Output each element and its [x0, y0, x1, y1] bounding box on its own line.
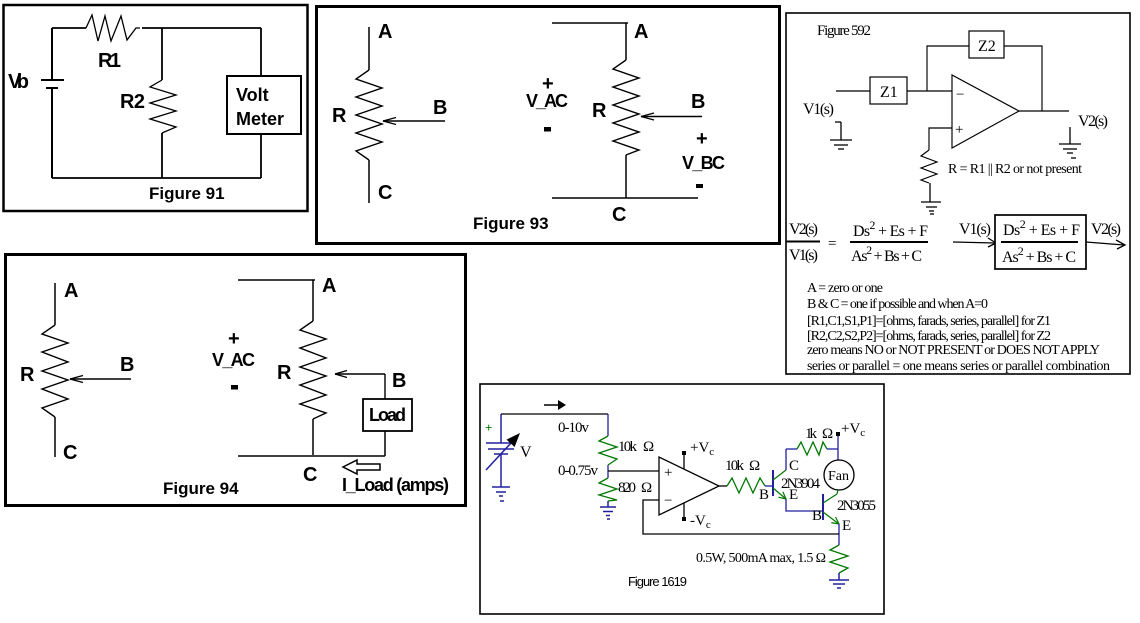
- wire R2 branch top: [161, 28, 163, 80]
- potentiometer R left 94: [42, 325, 68, 417]
- wire bottom right pot 94: [238, 455, 385, 457]
- ground V1: [830, 122, 852, 149]
- resistor 10k vertical: [599, 436, 617, 465]
- resistor R1: [86, 15, 140, 41]
- label 1k ohm: [805, 426, 833, 442]
- svg-text:B: B: [759, 487, 769, 503]
- svg-text:−: −: [664, 493, 672, 509]
- svg-text:B & C = one if possible and w: B & C = one if possible and when A=0: [807, 297, 988, 312]
- svg-text:V1(s): V1(s): [789, 247, 818, 264]
- op-amp A1: [659, 457, 719, 515]
- svg-text:Ds2 + Es + F: Ds2 + Es + F: [853, 218, 928, 240]
- svg-text:10k: 10k: [618, 439, 638, 455]
- svg-text:A: A: [64, 280, 78, 302]
- svg-text:Figure 592: Figure 592: [817, 23, 871, 39]
- battery Vb: [41, 28, 64, 178]
- svg-text:Ω: Ω: [641, 480, 652, 496]
- svg-text:R: R: [20, 364, 35, 386]
- wire 1k to Vc node: [827, 448, 838, 450]
- transistor Q1 2N3904: [773, 470, 786, 499]
- svg-text:+: +: [696, 128, 708, 150]
- svg-text:[R2,C2,S2,P2]=[ohms, farads, s: [R2,C2,S2,P2]=[ohms, farads, series, par…: [807, 329, 1051, 344]
- fan M1: [824, 460, 854, 490]
- svg-text:Ω: Ω: [822, 426, 833, 442]
- wire A down right pot 94: [312, 280, 314, 321]
- svg-text:[R1,C1,S1,P1]=[ohms, farads, s: [R1,C1,S1,P1]=[ohms, farads, series, par…: [807, 314, 1051, 329]
- wire A down right pot: [625, 23, 627, 60]
- svg-text:+Vc: +Vc: [690, 440, 714, 458]
- wire bottom: [52, 177, 261, 179]
- svg-text:B: B: [691, 91, 705, 113]
- wire junction: [607, 465, 609, 478]
- battery V variable source: [486, 414, 514, 470]
- svg-text:V1(s): V1(s): [959, 221, 991, 238]
- current arrow head: [558, 400, 566, 410]
- svg-text:R: R: [277, 362, 292, 384]
- svg-text:Fan: Fan: [828, 469, 849, 484]
- svg-text:B: B: [812, 508, 822, 524]
- wire A top right pot: [552, 22, 628, 24]
- wire Q1 collector up: [785, 449, 787, 470]
- svg-text:C: C: [63, 442, 77, 464]
- wire V1 input: [836, 90, 870, 92]
- ground battery: [492, 458, 510, 501]
- svg-text:A: A: [378, 21, 392, 43]
- wire Q2 emitter down: [838, 524, 840, 545]
- wire C right pot 94: [312, 419, 314, 455]
- wire op-amp output: [719, 485, 727, 487]
- svg-text:V2(s): V2(s): [789, 221, 818, 238]
- resistor 1k: [797, 442, 827, 455]
- svg-text:Figure 91: Figure 91: [149, 184, 225, 203]
- fraction bar: [850, 241, 928, 243]
- svg-text:0-10v: 0-10v: [558, 420, 590, 436]
- svg-text:2N3904: 2N3904: [781, 476, 821, 492]
- resistor 820: [599, 478, 617, 501]
- svg-text:Figure 94: Figure 94: [163, 479, 239, 498]
- svg-text:V2(s): V2(s): [1091, 221, 1121, 238]
- panel border Figure 91: [4, 5, 308, 211]
- block Z1: [870, 77, 907, 104]
- svg-text:Vb: Vb: [8, 71, 29, 93]
- wiper arrow right pot 94: [335, 371, 385, 400]
- svg-text:Figure 1619: Figure 1619: [628, 574, 687, 589]
- svg-text:Meter: Meter: [236, 109, 284, 129]
- label V_AC minus 94: [231, 385, 238, 390]
- svg-text:V_AC: V_AC: [526, 91, 568, 111]
- svg-text:0.5W, 500mA max, 1.5 Ω: 0.5W, 500mA max, 1.5 Ω: [696, 551, 826, 566]
- panel border Figure 592: [786, 13, 1130, 374]
- resistor R2: [150, 80, 176, 133]
- op-amp U1: [952, 75, 1019, 148]
- wiper arrow left pot: [383, 118, 445, 125]
- svg-text:As2 + Bs + C: As2 + Bs + C: [851, 243, 922, 265]
- svg-text:+Vc: +Vc: [841, 421, 865, 439]
- wire C left pot: [368, 160, 370, 203]
- resistor 1.5 ohm: [830, 545, 848, 573]
- ground 820: [600, 501, 616, 519]
- wire output: [1019, 110, 1069, 112]
- svg-text:V: V: [520, 444, 532, 461]
- transfer function block: [995, 215, 1086, 269]
- wire A left pot: [368, 27, 370, 70]
- wire Z2 to output: [1004, 46, 1042, 111]
- wire battery to divider: [501, 413, 608, 415]
- svg-text:E: E: [789, 487, 798, 503]
- svg-text:Z1: Z1: [880, 84, 898, 101]
- block Z2: [969, 31, 1004, 58]
- panel border Figure 94: [6, 255, 466, 506]
- svg-text:820: 820: [618, 480, 636, 496]
- wire bottom right pot: [552, 197, 698, 199]
- block fraction bar: [1001, 241, 1078, 243]
- wire top right: [142, 27, 261, 29]
- svg-text:zero means NO or NOT PRESENT o: zero means NO or NOT PRESENT or DOES NOT…: [807, 343, 1100, 358]
- supply -Vc: [682, 503, 711, 531]
- wire Q2 collector to fan: [837, 490, 838, 494]
- potentiometer R right 94: [300, 321, 326, 419]
- wire right branch: [260, 28, 262, 178]
- wire top left: [52, 27, 86, 29]
- svg-text:I_Load (amps): I_Load (amps): [342, 475, 449, 495]
- resistor 10k output: [727, 478, 765, 493]
- panel border Figure 93: [317, 7, 780, 244]
- wire R2 branch bottom: [161, 133, 163, 178]
- svg-text:R1: R1: [98, 50, 121, 72]
- arrow I_Load: [343, 460, 380, 474]
- svg-text:A: A: [322, 275, 336, 297]
- arrow into block: [953, 238, 996, 247]
- load box: [363, 399, 412, 431]
- svg-text:+: +: [955, 122, 963, 138]
- svg-text:Ω: Ω: [749, 458, 760, 474]
- svg-text:Figure 93: Figure 93: [473, 214, 549, 233]
- wiper arrow right pot: [641, 113, 702, 120]
- label V_BC minus: [696, 184, 703, 188]
- svg-text:series or parallel = one means: series or parallel = one means series or…: [807, 359, 1110, 374]
- svg-text:V1(s): V1(s): [803, 101, 834, 118]
- battery arrow head: [507, 433, 521, 447]
- svg-text:E: E: [842, 518, 851, 534]
- wire feedback up: [927, 46, 969, 91]
- wire resistor to base Q1: [765, 485, 773, 487]
- svg-text:−: −: [956, 87, 964, 103]
- svg-text:+: +: [228, 328, 240, 350]
- resistor R non-inverting: [921, 150, 937, 183]
- label 820 ohm: [618, 480, 652, 496]
- svg-text:R2: R2: [120, 91, 145, 113]
- svg-text:C: C: [378, 182, 392, 204]
- svg-text:V2(s): V2(s): [1078, 113, 1108, 130]
- svg-text:1k: 1k: [805, 426, 818, 442]
- transistor Q2 2N3055: [823, 494, 839, 524]
- wire A top right pot 94: [238, 279, 315, 281]
- wire to 10k: [607, 414, 609, 436]
- ground V2: [1059, 127, 1081, 158]
- svg-text:10k: 10k: [725, 458, 745, 474]
- wire C right pot: [625, 155, 627, 198]
- svg-text:Volt: Volt: [236, 85, 269, 105]
- svg-text:Ω: Ω: [643, 439, 654, 455]
- arrow out of block: [1086, 240, 1125, 249]
- label 10k ohm output: [725, 458, 760, 474]
- wire junction to op-amp: [608, 470, 659, 472]
- svg-text:B: B: [392, 370, 406, 392]
- label V_AC minus: [544, 127, 551, 132]
- wire Q1 emitter to Q2 base: [786, 499, 823, 511]
- svg-text:C: C: [303, 464, 317, 486]
- volt meter box: [227, 76, 301, 134]
- svg-text:+: +: [664, 465, 672, 481]
- svg-text:A: A: [634, 21, 648, 43]
- svg-text:0-0.75v: 0-0.75v: [558, 463, 599, 479]
- wire load to bottom: [384, 431, 386, 456]
- svg-text:V_AC: V_AC: [212, 350, 255, 370]
- svg-text:-Vc: -Vc: [690, 513, 711, 531]
- wire feedback: [643, 500, 839, 534]
- wire C left pot 94: [54, 417, 56, 457]
- supply +Vc node: [836, 421, 865, 460]
- svg-text:2N3055: 2N3055: [837, 498, 876, 514]
- svg-text:B: B: [120, 354, 134, 376]
- label 10k ohm: [618, 439, 654, 455]
- potentiometer R right: [613, 60, 639, 155]
- svg-text:B: B: [433, 97, 447, 119]
- wire plus input: [929, 128, 952, 150]
- current arrow: [544, 404, 562, 406]
- svg-text:A = zero or one: A = zero or one: [807, 281, 883, 296]
- wire collector to 1k: [786, 448, 797, 450]
- svg-text:Z2: Z2: [978, 38, 996, 55]
- svg-text:=: =: [828, 236, 836, 252]
- svg-text:R: R: [332, 105, 347, 127]
- supply +Vc: [682, 440, 714, 469]
- panel border Figure 1619: [480, 384, 884, 614]
- svg-text:Load: Load: [369, 405, 406, 425]
- svg-text:R = R1 || R2 or not present: R = R1 || R2 or not present: [948, 162, 1082, 177]
- equation left bar: [786, 241, 820, 243]
- svg-text:V_BC: V_BC: [682, 153, 725, 173]
- svg-text:R: R: [592, 100, 607, 122]
- potentiometer R left: [356, 70, 382, 160]
- ground under R: [921, 183, 941, 214]
- wire Z1 to op-amp: [907, 90, 952, 92]
- wire A left pot 94: [54, 283, 56, 325]
- wiper arrow left pot 94: [70, 376, 131, 383]
- svg-text:C: C: [789, 458, 799, 474]
- svg-text:+: +: [485, 420, 492, 435]
- svg-text:C: C: [612, 204, 626, 226]
- ground 1.5 ohm: [829, 573, 849, 588]
